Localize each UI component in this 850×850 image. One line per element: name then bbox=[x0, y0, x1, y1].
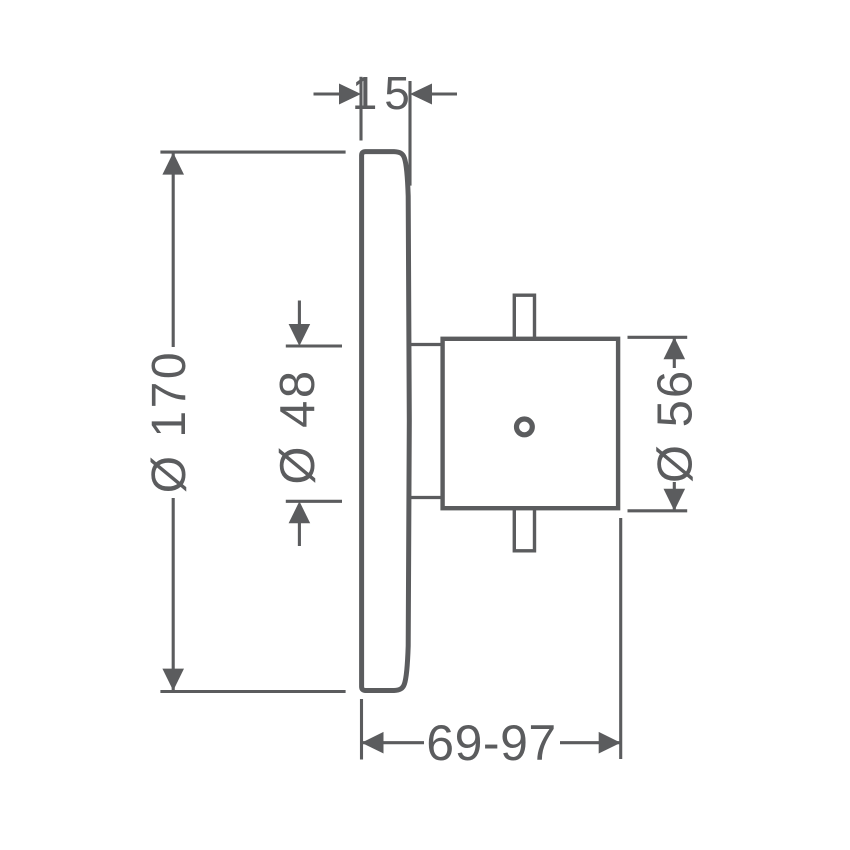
svg-text:Ø 48: Ø 48 bbox=[271, 368, 325, 484]
svg-text:1: 1 bbox=[352, 67, 380, 119]
svg-text:Ø 170: Ø 170 bbox=[143, 350, 196, 493]
svg-text:69-97: 69-97 bbox=[426, 715, 556, 771]
svg-text:5: 5 bbox=[384, 67, 412, 119]
svg-text:Ø 56: Ø 56 bbox=[648, 369, 702, 483]
